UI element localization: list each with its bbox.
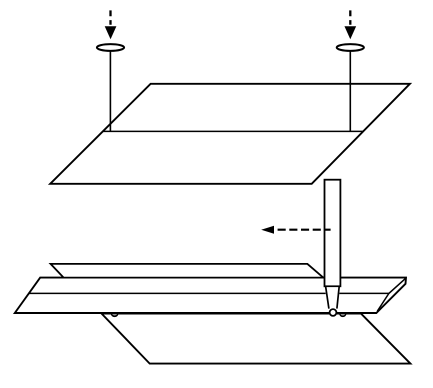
- left dashed down-arrow shaft: [109, 10, 111, 24]
- pen tip cone right edge: [337, 286, 339, 308]
- pen tip cone left edge: [326, 286, 329, 308]
- right dashed down-arrow head: [344, 26, 356, 39]
- bottom plate (lower parallelogram): [102, 314, 411, 364]
- slab right bevel inner edge: [377, 278, 406, 311]
- pen tip cone fill: [325, 287, 341, 308]
- right pin head (ellipse): [337, 44, 364, 51]
- left grey ball under slab: [111, 310, 118, 317]
- horizontal dashed arrow head: [261, 226, 274, 234]
- top plate (upper parallelogram): [50, 84, 410, 184]
- right dashed down-arrow shaft: [349, 10, 351, 24]
- horizontal dashed arrow shaft: [278, 229, 331, 231]
- pen body: [325, 180, 341, 287]
- slab front-top inner line: [29, 292, 389, 294]
- slab (lower strip body silhouette): [15, 278, 406, 313]
- left pin shaft: [109, 48, 111, 132]
- pen ball tip: [330, 309, 337, 316]
- inner fold line on top plate: [103, 130, 363, 132]
- left dashed down-arrow head: [105, 26, 117, 39]
- left pin head (ellipse): [97, 44, 124, 51]
- right grey ball under slab: [340, 310, 346, 316]
- top strip (thin parallelogram on slab): [51, 264, 324, 278]
- right pin shaft: [349, 48, 351, 132]
